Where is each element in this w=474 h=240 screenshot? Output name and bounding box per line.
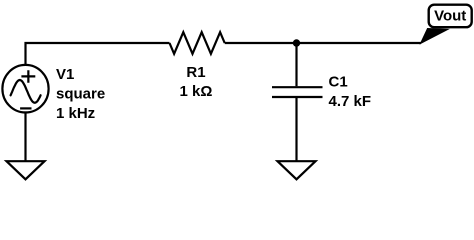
svg-text:1 kΩ: 1 kΩ: [180, 83, 213, 100]
ground (right): [278, 161, 316, 179]
svg-text:V1: V1: [56, 66, 74, 83]
capacitor C1 top lead wire: [295, 43, 297, 86]
capacitor C1 plates: [272, 87, 323, 97]
wire from resistor to Vout tap: [225, 42, 421, 44]
svg-text:C1: C1: [329, 73, 348, 90]
svg-text:R1: R1: [186, 64, 205, 81]
V1 plus sign: [21, 70, 35, 83]
V1 minus sign: [20, 107, 31, 109]
svg-text:1 kHz: 1 kHz: [56, 105, 95, 122]
wire V1 bottom to ground: [24, 111, 26, 161]
wire from V1 top to resistor: [26, 43, 170, 65]
Vout flag pointer: [421, 29, 449, 44]
capacitor C1 bottom lead wire: [295, 98, 297, 161]
ground (left): [7, 161, 45, 179]
V1 sine wave: [11, 80, 41, 103]
voltage source V1: [2, 65, 48, 113]
Vout flag box: [429, 5, 472, 28]
svg-text:square: square: [56, 85, 105, 102]
resistor R1: [170, 32, 225, 54]
svg-text:4.7 kF: 4.7 kF: [329, 93, 372, 110]
node junction dot: [293, 39, 300, 46]
svg-text:Vout: Vout: [434, 8, 466, 25]
